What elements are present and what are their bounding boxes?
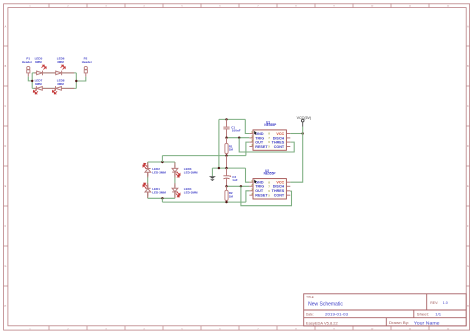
wire R1 bottom to ground rail bbox=[226, 156, 228, 169]
svg-text:LED-3MM: LED-3MM bbox=[152, 190, 166, 194]
node junction P1-bridge bbox=[31, 80, 33, 82]
wire TRIG2 to THRES2 loop bbox=[241, 186, 292, 205]
wire mid bridge top row bbox=[148, 161, 175, 163]
svg-text:G: G bbox=[467, 265, 469, 268]
svg-text:THRES: THRES bbox=[272, 189, 285, 193]
svg-text:GND: GND bbox=[255, 181, 264, 185]
header P2 bbox=[82, 56, 93, 76]
node junction bridge top feed bbox=[161, 161, 163, 163]
svg-text:1uF: 1uF bbox=[232, 178, 238, 182]
svg-text:EasyEDA V5.8.22: EasyEDA V5.8.22 bbox=[306, 321, 338, 325]
wire P1 to LED bridge bbox=[28, 77, 32, 81]
svg-text:DISCH: DISCH bbox=[273, 136, 285, 140]
svg-text:G: G bbox=[4, 265, 6, 268]
node junction TRIG2-THRES2 bbox=[240, 185, 242, 187]
LED LED7 bbox=[33, 79, 46, 94]
capacitor C2 polarized bbox=[223, 168, 237, 186]
cursor arrow on U2 pin 1 bbox=[254, 180, 257, 184]
node junction R1 bottom OUT1 bbox=[225, 154, 227, 156]
svg-text:1M: 1M bbox=[229, 195, 234, 199]
svg-text:CONT: CONT bbox=[274, 194, 285, 198]
node junction bridge bottom feed bbox=[161, 197, 163, 199]
svg-text:Drawn By:: Drawn By: bbox=[389, 320, 409, 324]
node junction VCC rail bbox=[302, 132, 304, 134]
wire VCC rail down to U2 bbox=[290, 134, 302, 183]
wire top-left bridge bottom row bbox=[32, 87, 76, 89]
wire OUT2 riser bbox=[246, 191, 250, 202]
node junction TRIG1-THRES bbox=[238, 137, 240, 139]
svg-text:DISCH: DISCH bbox=[273, 185, 285, 189]
svg-text:2019-01-03: 2019-01-03 bbox=[325, 312, 349, 317]
wire top-left bridge left rail bbox=[31, 73, 33, 89]
wire between LED7 and LED8 bbox=[46, 87, 54, 89]
svg-text:3MM: 3MM bbox=[35, 82, 42, 86]
svg-text:100nF: 100nF bbox=[232, 129, 241, 133]
resistor R2 bbox=[225, 186, 233, 202]
svg-text:VCC(5V): VCC(5V) bbox=[297, 116, 311, 120]
capacitor C1 bbox=[223, 119, 240, 137]
svg-text:3MM: 3MM bbox=[57, 82, 64, 86]
cursor arrow on U1 pin 1 bbox=[254, 131, 257, 135]
svg-text:Your Name: Your Name bbox=[414, 321, 440, 326]
svg-text:NE555P: NE555P bbox=[264, 123, 277, 127]
ground symbol bbox=[209, 168, 216, 180]
LED LED1 bbox=[143, 183, 166, 196]
ground rail bbox=[212, 167, 245, 169]
svg-text:TRIG: TRIG bbox=[255, 185, 264, 189]
node junction R2 bottom OUT2 bbox=[225, 201, 227, 203]
svg-text:RESET: RESET bbox=[255, 194, 268, 198]
U2 pin name labels bbox=[255, 181, 268, 198]
svg-text:OUT: OUT bbox=[255, 141, 264, 145]
svg-text:D: D bbox=[5, 145, 7, 148]
LED LED2 bbox=[143, 163, 166, 176]
svg-text:New Schematic: New Schematic bbox=[308, 302, 343, 308]
svg-text:LED-3MM: LED-3MM bbox=[152, 171, 166, 175]
svg-text:3MM: 3MM bbox=[57, 60, 64, 64]
svg-text:NE555P: NE555P bbox=[264, 172, 277, 176]
svg-text:OUT: OUT bbox=[255, 189, 264, 193]
node junction TRIG2-C2 bbox=[225, 185, 227, 187]
svg-text:Header: Header bbox=[82, 60, 93, 64]
wire TRIG1 to THRES1 loop bbox=[239, 138, 294, 152]
LED LED4 bbox=[172, 185, 198, 197]
wire mid bridge bottom row bbox=[148, 197, 175, 199]
U2 pin numbers 1-8 bbox=[251, 180, 270, 198]
wire GND left vertical bbox=[218, 119, 220, 168]
svg-text:Date:: Date: bbox=[306, 312, 314, 316]
svg-text:+: + bbox=[229, 174, 231, 178]
svg-text:3MM: 3MM bbox=[35, 60, 42, 64]
U1 pin name labels bbox=[255, 132, 268, 149]
svg-text:D: D bbox=[467, 145, 469, 148]
title block bbox=[304, 294, 467, 326]
node junction ground-C2 bbox=[225, 167, 227, 169]
wire mid bridge lead segments right rail bbox=[174, 162, 176, 198]
wire ground rail to U2 pin1 bbox=[246, 168, 250, 182]
wire GND top rail U1 bbox=[219, 118, 245, 120]
node junction C1 top bbox=[225, 118, 227, 120]
svg-text:VCC: VCC bbox=[276, 181, 284, 185]
wire OUT1 rail to bridge bbox=[162, 155, 246, 157]
wire P2 to LED bridge bbox=[76, 77, 86, 81]
svg-text:Sheet:: Sheet: bbox=[417, 313, 429, 317]
resistor R1 bbox=[225, 138, 233, 156]
LED LED3 bbox=[172, 165, 198, 177]
node junction ground-left vertical bbox=[218, 167, 220, 169]
svg-text:Header: Header bbox=[22, 60, 33, 64]
node junction TRIG1-C1 bbox=[225, 137, 227, 139]
LED LED5 bbox=[34, 56, 46, 75]
svg-text:LED-3MM: LED-3MM bbox=[184, 190, 198, 194]
IC U2 NE555P 555 timer bbox=[249, 169, 290, 199]
wire OUT1 riser bbox=[246, 142, 250, 156]
wire mid bridge left rail bbox=[147, 162, 149, 198]
header P1 bbox=[22, 56, 33, 76]
LED LED6 bbox=[54, 56, 75, 75]
wire U1 VCC to rail bbox=[290, 133, 302, 135]
svg-text:REV:: REV: bbox=[430, 301, 438, 305]
wire bridge top feed bbox=[161, 156, 163, 162]
power flag VCC(5V) bbox=[297, 116, 311, 133]
svg-text:1M: 1M bbox=[229, 148, 234, 152]
wire mid bridge right rail bbox=[174, 162, 176, 198]
wire top-left bridge top row bbox=[32, 72, 76, 74]
svg-text:LED-3MM: LED-3MM bbox=[184, 171, 198, 175]
title block texts bbox=[306, 295, 448, 326]
svg-text:C: C bbox=[5, 105, 7, 108]
svg-text:H: H bbox=[5, 305, 7, 308]
svg-text:GND: GND bbox=[255, 132, 264, 136]
wire TRIG2 rail bbox=[227, 185, 250, 187]
IC U1 NE555P 555 timer bbox=[249, 120, 290, 150]
svg-text:C: C bbox=[467, 105, 469, 108]
node junction P2-bridge bbox=[75, 80, 77, 82]
svg-text:THRES: THRES bbox=[272, 141, 285, 145]
LED LED8 bbox=[52, 79, 74, 94]
wire bridge bottom feed bbox=[161, 198, 163, 202]
svg-text:1.0: 1.0 bbox=[443, 301, 448, 305]
U1 pin numbers 1-8 bbox=[251, 131, 270, 149]
wire mid bridge lead segments left rail bbox=[147, 162, 149, 198]
wire top-left bridge right rail bbox=[75, 73, 77, 89]
wire OUT2 rail to bridge bbox=[162, 201, 246, 203]
svg-text:VCC: VCC bbox=[276, 132, 284, 136]
svg-text:TRIG: TRIG bbox=[255, 136, 264, 140]
svg-text:H: H bbox=[467, 305, 469, 308]
wire between LED5 and LED6 bbox=[46, 72, 54, 74]
svg-text:CONT: CONT bbox=[274, 145, 285, 149]
wire GND drop to U1 pin1 bbox=[245, 119, 249, 133]
svg-text:RESET: RESET bbox=[255, 145, 268, 149]
svg-text:1/1: 1/1 bbox=[435, 312, 441, 317]
wire TRIG1 rail bbox=[227, 137, 250, 139]
